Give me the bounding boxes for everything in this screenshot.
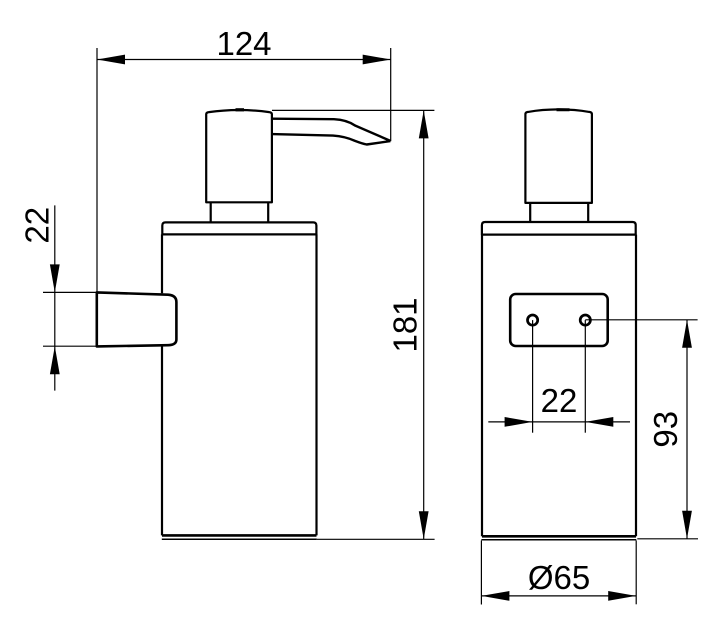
svg-text:22: 22 [18, 207, 55, 244]
dimension 22 (bracket) arrow up [50, 346, 60, 374]
screw hole right [580, 315, 590, 325]
dimension 22 (holes) extension line right [584, 320, 586, 433]
dimension 93 extension line top [585, 319, 697, 321]
dimension 181 line [423, 110, 425, 539]
pump neck (side view) [211, 202, 269, 222]
dimension 181 extension line bottom [317, 538, 435, 540]
dimension 22 (holes) arrow right-pointing [505, 417, 533, 427]
svg-text:Ø65: Ø65 [528, 559, 590, 596]
dimension 22 (holes) extension line left [532, 320, 534, 433]
bottle body (side view) [162, 234, 317, 539]
dimension 181 arrow up [419, 110, 429, 138]
dimension 93 arrow down [682, 511, 692, 539]
dimension 124 arrow left [97, 55, 125, 65]
svg-text:22: 22 [541, 382, 578, 419]
dimension 22 (bracket) extension line bottom [43, 345, 97, 347]
dimension 22 (bracket) extension line top [43, 291, 97, 293]
dimension 22 (bracket) arrow down [50, 264, 60, 292]
dimension 22 (bracket) line [54, 205, 56, 390]
dimension 65 extension line right [635, 541, 637, 605]
dimension 93 extension line bottom [637, 538, 698, 540]
dimension 181 arrow down [419, 511, 429, 539]
svg-text:93: 93 [647, 411, 684, 448]
dimension 93 arrow up [682, 320, 692, 348]
dimension 65 line [481, 595, 636, 597]
dimension 22 (holes) arrow left-pointing [585, 417, 613, 427]
svg-text:181: 181 [387, 297, 424, 352]
dimension 124 arrow right [363, 55, 391, 65]
top cap (front view) [482, 222, 636, 235]
dimension 124 line [97, 59, 391, 61]
spout [272, 119, 391, 145]
dimension 65 arrow right [608, 591, 636, 601]
dimension 124 extension line left [96, 48, 98, 292]
pump neck (front view) [530, 203, 588, 222]
top cap (side view) [162, 222, 316, 234]
svg-text:124: 124 [216, 25, 271, 62]
screw hole left [528, 315, 538, 325]
dimension 93 line [686, 320, 688, 539]
dimension 65 arrow left [481, 591, 509, 601]
wall bracket (side view) [97, 292, 177, 346]
pump head (side view) [206, 110, 272, 203]
dimension 22 (holes) line [488, 421, 630, 423]
dimension 124 extension line right [390, 48, 392, 141]
bottle body (front view) [481, 235, 636, 540]
mounting plate (front view) [510, 294, 608, 346]
dimension 181 extension line top [272, 109, 434, 111]
pump head (front view) [525, 109, 592, 202]
dimension 65 extension line left [480, 541, 482, 605]
